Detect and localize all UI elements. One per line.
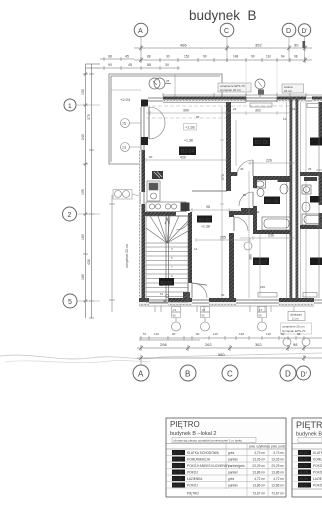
svg-text:25: 25 bbox=[166, 79, 170, 83]
svg-text:96: 96 bbox=[108, 55, 112, 59]
grid bubble A top bbox=[134, 23, 148, 37]
west wall below (stair) bbox=[139, 150, 142, 192]
bathroom south wall bbox=[253, 230, 290, 234]
svg-text:90: 90 bbox=[202, 313, 205, 317]
svg-text:A2-05: A2-05 bbox=[299, 471, 308, 475]
svg-text:A2-03: A2-03 bbox=[299, 458, 308, 462]
svg-text:98: 98 bbox=[294, 55, 298, 59]
door bubble bbox=[244, 242, 252, 250]
treads bbox=[146, 246, 188, 248]
svg-text:pow. użytkowa: pow. użytkowa bbox=[249, 445, 270, 449]
svg-text:90: 90 bbox=[251, 55, 255, 59]
svg-text:226: 226 bbox=[266, 159, 272, 163]
svg-text:PIĘTRO: PIĘTRO bbox=[187, 492, 199, 496]
svg-text:486: 486 bbox=[180, 43, 187, 48]
svg-text:110: 110 bbox=[154, 332, 159, 336]
svg-text:gres: gres bbox=[228, 451, 235, 455]
svg-text:styropian EPS-70: styropian EPS-70 bbox=[282, 329, 306, 333]
svg-text:13,26 m²: 13,26 m² bbox=[252, 458, 265, 462]
svg-text:POKÓJ+ANEKS KUCHENNY: POKÓJ+ANEKS KUCHENNY bbox=[187, 463, 230, 468]
grid bubble 1 left bbox=[64, 99, 76, 111]
svg-text:13: 13 bbox=[122, 146, 126, 150]
svg-text:parkiet/gres: parkiet/gres bbox=[228, 464, 245, 468]
top wall left segment bbox=[163, 97, 246, 100]
svg-text:24 cm: 24 cm bbox=[284, 89, 293, 93]
window labels below bottom wall bbox=[155, 306, 259, 312]
svg-text:D: D bbox=[286, 28, 291, 35]
svg-text:5: 5 bbox=[171, 256, 173, 260]
svg-text:D: D bbox=[285, 370, 291, 379]
vent symbol double circle bbox=[149, 78, 171, 89]
door to bathroom arc bbox=[239, 192, 253, 206]
svg-text:90: 90 bbox=[259, 313, 262, 317]
svg-text:88: 88 bbox=[147, 55, 151, 59]
window circles right bbox=[283, 338, 291, 346]
svg-text:64: 64 bbox=[281, 55, 285, 59]
svg-text:90: 90 bbox=[196, 332, 200, 336]
svg-text:90: 90 bbox=[172, 332, 176, 336]
svg-text:+1.38: +1.38 bbox=[201, 225, 210, 229]
bathroom dim line bbox=[240, 161, 295, 240]
svg-text:B2-03: B2-03 bbox=[173, 458, 182, 462]
svg-text:B2-02: B2-02 bbox=[173, 451, 182, 455]
svg-text:9: 9 bbox=[171, 274, 173, 278]
svg-text:90: 90 bbox=[163, 299, 167, 303]
svg-text:90: 90 bbox=[294, 43, 299, 48]
svg-text:45: 45 bbox=[128, 63, 132, 67]
stair east wall bbox=[188, 213, 192, 283]
svg-text:23,29 m²: 23,29 m² bbox=[271, 464, 284, 468]
svg-text:parkiet: parkiet bbox=[228, 458, 238, 462]
svg-text:PIĘTRO: PIĘTRO bbox=[296, 420, 322, 430]
terrace inner step line bbox=[111, 89, 141, 91]
svg-text:obmiar wg obrysu posadzki pomi: obmiar wg obrysu posadzki pomieszczeń 1 … bbox=[174, 439, 243, 443]
svg-text:KLATKA SCHODOWA: KLATKA SCHODOWA bbox=[187, 451, 220, 455]
svg-text:B2-04: B2-04 bbox=[181, 149, 195, 155]
svg-text:gres: gres bbox=[228, 477, 235, 481]
grid bubble D' top bbox=[298, 24, 310, 36]
svg-text:B2-05: B2-05 bbox=[173, 471, 182, 475]
tiny chain above bubbles bbox=[139, 339, 200, 341]
grid bubble 2 left bbox=[63, 207, 77, 221]
label B2-03 corridor bbox=[197, 216, 212, 223]
chain dims below bottom wall bbox=[139, 336, 322, 340]
svg-text:budynek B –lokal 2: budynek B –lokal 2 bbox=[170, 431, 216, 437]
svg-text:13,86 m²: 13,86 m² bbox=[252, 484, 265, 488]
glazed west wall of B2-04 bbox=[141, 107, 144, 150]
extension lines to dim bbox=[246, 62, 277, 96]
note box: sciana bbox=[282, 84, 304, 93]
svg-text:B2-06: B2-06 bbox=[266, 199, 279, 205]
svg-text:24: 24 bbox=[233, 107, 237, 111]
winders bbox=[150, 216, 167, 243]
column lines bbox=[225, 444, 227, 490]
svg-text:A: A bbox=[138, 370, 144, 379]
window in top wall B2-05 bbox=[246, 97, 277, 102]
left inner dim line bbox=[109, 195, 115, 312]
mirror labels right bbox=[310, 138, 322, 146]
svg-text:B2-03: B2-03 bbox=[199, 217, 212, 222]
right edge dim line bbox=[316, 104, 322, 298]
svg-text:KOMUNIKACJA: KOMUNIKACJA bbox=[187, 458, 211, 462]
svg-text:110: 110 bbox=[213, 332, 218, 336]
B2-05 door arc bbox=[237, 160, 253, 176]
top dimension line 1 bbox=[134, 45, 312, 51]
svg-text:2 cm: 2 cm bbox=[292, 317, 299, 321]
terrace double door arcs bbox=[149, 107, 165, 123]
svg-text:90: 90 bbox=[173, 313, 176, 317]
svg-text:3,73 m²: 3,73 m² bbox=[254, 451, 265, 455]
svg-text:73,67 m²: 73,67 m² bbox=[271, 492, 284, 496]
svg-text:parkiet: parkiet bbox=[228, 484, 238, 488]
svg-text:98: 98 bbox=[293, 342, 298, 347]
svg-text:262: 262 bbox=[205, 342, 212, 347]
svg-text:B2-04: B2-04 bbox=[173, 464, 182, 468]
svg-text:1.5: 1.5 bbox=[259, 308, 263, 312]
corridor dim line bbox=[185, 208, 250, 212]
svg-text:KLATKA: KLATKA bbox=[313, 451, 322, 455]
faint terrain line bbox=[0, 353, 322, 359]
svg-text:24: 24 bbox=[231, 255, 235, 259]
svg-text:57: 57 bbox=[143, 332, 147, 336]
bottom dim line 1 bbox=[137, 345, 322, 351]
svg-text:80: 80 bbox=[243, 193, 247, 197]
B2-07 north wall stub bbox=[234, 211, 253, 215]
svg-text:90: 90 bbox=[221, 293, 225, 297]
svg-text:parkiet: parkiet bbox=[228, 471, 238, 475]
svg-text:236: 236 bbox=[260, 285, 265, 289]
svg-text:A2-02: A2-02 bbox=[299, 451, 308, 455]
svg-text:160: 160 bbox=[81, 234, 85, 240]
svg-text:12: 12 bbox=[194, 247, 198, 251]
svg-text:98: 98 bbox=[297, 332, 301, 336]
label B2-05 bbox=[253, 138, 270, 147]
window west wall bbox=[140, 192, 144, 204]
svg-text:POKÓJ: POKÓJ bbox=[313, 470, 322, 475]
grid bubble C top bbox=[220, 23, 234, 37]
svg-text:ocieplenie 20 cm: ocieplenie 20 cm bbox=[125, 244, 129, 268]
svg-text:375: 375 bbox=[87, 114, 91, 120]
svg-text:7: 7 bbox=[171, 265, 173, 269]
interior dim chains bbox=[146, 107, 290, 298]
svg-text:ŁAZIENKA: ŁAZIENKA bbox=[187, 477, 203, 481]
bathroom north wall bbox=[253, 176, 290, 180]
stair door arc bbox=[192, 283, 207, 298]
svg-text:98: 98 bbox=[206, 205, 210, 209]
svg-text:110: 110 bbox=[266, 332, 271, 336]
B2-07 west wall bbox=[229, 211, 234, 217]
svg-text:PIĘTRO: PIĘTRO bbox=[170, 420, 200, 429]
window label left outside bbox=[113, 190, 132, 200]
svg-text:236: 236 bbox=[268, 234, 274, 238]
svg-text:1.5: 1.5 bbox=[202, 308, 206, 312]
svg-text:24: 24 bbox=[292, 107, 296, 111]
header bbox=[166, 443, 286, 445]
svg-text:30: 30 bbox=[165, 63, 169, 67]
svg-text:90: 90 bbox=[203, 55, 207, 59]
svg-text:430: 430 bbox=[87, 259, 91, 265]
column block in west glazing bbox=[141, 137, 148, 145]
svg-text:+1.38: +1.38 bbox=[184, 139, 193, 143]
bathroom west wall bbox=[253, 180, 257, 188]
svg-text:90: 90 bbox=[256, 210, 260, 214]
svg-text:B2-02: B2-02 bbox=[161, 280, 174, 285]
dashed beam lines bbox=[146, 106, 290, 118]
toilet bbox=[278, 178, 290, 182]
mirror unit fixtures bbox=[302, 185, 322, 225]
svg-text:380: 380 bbox=[249, 254, 253, 260]
svg-text:3,73 m²: 3,73 m² bbox=[273, 451, 284, 455]
svg-text:390: 390 bbox=[183, 109, 189, 113]
svg-text:C: C bbox=[224, 28, 229, 35]
B2-04 south wall bbox=[145, 212, 176, 216]
svg-text:90: 90 bbox=[149, 155, 153, 159]
terrace slab joint line bbox=[174, 74, 176, 97]
svg-text:362: 362 bbox=[255, 342, 262, 347]
svg-text:5: 5 bbox=[68, 299, 72, 306]
note box: ocieplenie EPS-70 bbox=[218, 83, 251, 92]
svg-text:D': D' bbox=[301, 372, 307, 379]
svg-text:13,26 m²: 13,26 m² bbox=[271, 458, 284, 462]
mirror bathroom east wall bbox=[319, 172, 322, 205]
dark tick blob at D' bbox=[303, 41, 306, 48]
svg-text:352: 352 bbox=[255, 43, 262, 48]
svg-text:13,86 m²: 13,86 m² bbox=[252, 471, 265, 475]
mirror B2-07 north wall bbox=[300, 210, 322, 212]
corridor north partition bbox=[192, 190, 227, 192]
label B2-04 bbox=[179, 147, 196, 156]
bathtub bbox=[262, 217, 291, 230]
top chain dims small bbox=[100, 57, 180, 70]
door to B2-07 arc bbox=[234, 217, 248, 231]
svg-text:23,29 m²: 23,29 m² bbox=[252, 464, 265, 468]
svg-text:45: 45 bbox=[125, 55, 129, 59]
svg-text:46: 46 bbox=[240, 167, 244, 171]
label B2-02 stair bbox=[159, 278, 174, 286]
svg-text:A2-07: A2-07 bbox=[299, 484, 308, 488]
window top far right bbox=[306, 98, 312, 101]
svg-text:05: 05 bbox=[196, 115, 200, 119]
top wall far right segment bbox=[312, 97, 322, 100]
svg-text:1: 1 bbox=[68, 103, 72, 110]
top dimension line 2 bbox=[134, 57, 312, 63]
svg-text:C: C bbox=[227, 370, 233, 379]
party wall double bbox=[290, 97, 293, 306]
svg-text:B2-06: B2-06 bbox=[173, 477, 182, 481]
wall stub in corridor nook bbox=[241, 208, 253, 213]
grid bubble D top bbox=[282, 23, 296, 37]
top wall right segment bbox=[277, 97, 306, 100]
grid leaders top bbox=[141, 37, 305, 63]
grid bubble 5 left bbox=[63, 294, 77, 308]
svg-text:A: A bbox=[138, 28, 143, 35]
svg-text:2: 2 bbox=[68, 212, 72, 219]
svg-text:240: 240 bbox=[81, 134, 85, 140]
svg-text:4,72 m²: 4,72 m² bbox=[273, 477, 284, 481]
svg-text:POKÓJ: POKÓJ bbox=[313, 463, 322, 468]
svg-text:255: 255 bbox=[220, 236, 226, 240]
svg-text:195: 195 bbox=[81, 189, 85, 195]
interior wall B2-04/B2-05 vertical bbox=[226, 102, 231, 191]
svg-text:12: 12 bbox=[283, 117, 287, 121]
dylatacja label bbox=[288, 312, 305, 321]
door arc in B2-04 south wall bbox=[176, 216, 190, 230]
terrace door threshold bbox=[148, 98, 163, 101]
leader lines below right window bbox=[265, 306, 271, 312]
vent circle right bbox=[255, 79, 265, 89]
bottom dim line 2 bbox=[137, 355, 322, 361]
bottom grid bubbles bbox=[133, 365, 149, 381]
label B2-06 bbox=[264, 197, 280, 205]
note box bottom right bbox=[281, 323, 312, 334]
svg-text:budynek B: budynek B bbox=[296, 432, 322, 438]
kitchen vent block bbox=[152, 171, 163, 179]
svg-text:+2.04: +2.04 bbox=[120, 97, 131, 102]
svg-text:30: 30 bbox=[166, 55, 170, 59]
svg-text:13,86 m²: 13,86 m² bbox=[271, 471, 284, 475]
svg-text:budynek B: budynek B bbox=[189, 8, 257, 23]
svg-text:73,67 m²: 73,67 m² bbox=[252, 492, 265, 496]
chain dims above top wall bbox=[163, 93, 322, 97]
washbasin bbox=[255, 180, 266, 197]
svg-text:A2-04: A2-04 bbox=[299, 464, 308, 468]
center rail bbox=[165, 216, 167, 302]
svg-text:POKÓJ: POKÓJ bbox=[313, 483, 322, 488]
svg-text:148: 148 bbox=[233, 55, 239, 59]
svg-text:B2-05: B2-05 bbox=[255, 140, 269, 146]
svg-text:+1.38: +1.38 bbox=[185, 126, 195, 130]
table rows bbox=[166, 450, 286, 496]
svg-text:152: 152 bbox=[184, 55, 190, 59]
scattered tiny dims bbox=[149, 107, 312, 303]
svg-text:KOMUN: KOMUN bbox=[313, 458, 322, 462]
svg-text:ocieplenie 20 cm: ocieplenie 20 cm bbox=[282, 325, 305, 329]
label B2-07 bbox=[253, 258, 269, 266]
column black square bbox=[141, 100, 148, 107]
svg-text:302: 302 bbox=[255, 109, 261, 113]
svg-text:13,86 m²: 13,86 m² bbox=[271, 484, 284, 488]
svg-text:980: 980 bbox=[218, 352, 225, 357]
fridge dark block bbox=[181, 203, 190, 212]
walk line arrow bbox=[166, 295, 169, 298]
door bubbles left bbox=[121, 119, 130, 128]
svg-text:B2-07: B2-07 bbox=[173, 484, 182, 488]
svg-text:25: 25 bbox=[308, 167, 312, 171]
svg-text:4,72 m²: 4,72 m² bbox=[254, 477, 265, 481]
svg-text:148: 148 bbox=[239, 332, 244, 336]
svg-text:420: 420 bbox=[180, 156, 186, 160]
svg-text:110: 110 bbox=[266, 55, 271, 59]
svg-text:pow. podł.: pow. podł. bbox=[271, 445, 285, 449]
svg-text:570: 570 bbox=[221, 174, 225, 180]
svg-text:POKÓJ: POKÓJ bbox=[187, 470, 198, 475]
svg-text:90: 90 bbox=[108, 63, 112, 67]
svg-text:D': D' bbox=[302, 28, 308, 35]
svg-text:3: 3 bbox=[171, 247, 173, 251]
svg-text:13: 13 bbox=[160, 292, 164, 296]
T stub above bottom wall bbox=[183, 292, 190, 299]
svg-text:50: 50 bbox=[281, 332, 285, 336]
bottom windows bbox=[149, 300, 322, 303]
svg-text:150: 150 bbox=[81, 89, 85, 95]
svg-text:1.5: 1.5 bbox=[173, 308, 177, 312]
svg-text:15: 15 bbox=[122, 122, 126, 126]
svg-text:B: B bbox=[185, 370, 190, 379]
svg-text:186: 186 bbox=[81, 274, 85, 280]
svg-text:styropian 20 cm: styropian 20 cm bbox=[220, 88, 242, 92]
svg-text:ŁAZIE: ŁAZIE bbox=[313, 477, 322, 481]
svg-text:298: 298 bbox=[160, 342, 167, 347]
svg-text:POKÓJ: POKÓJ bbox=[187, 483, 198, 488]
svg-text:A2-06: A2-06 bbox=[299, 477, 308, 481]
svg-text:88: 88 bbox=[147, 63, 151, 67]
svg-text:B2-07: B2-07 bbox=[255, 260, 268, 266]
